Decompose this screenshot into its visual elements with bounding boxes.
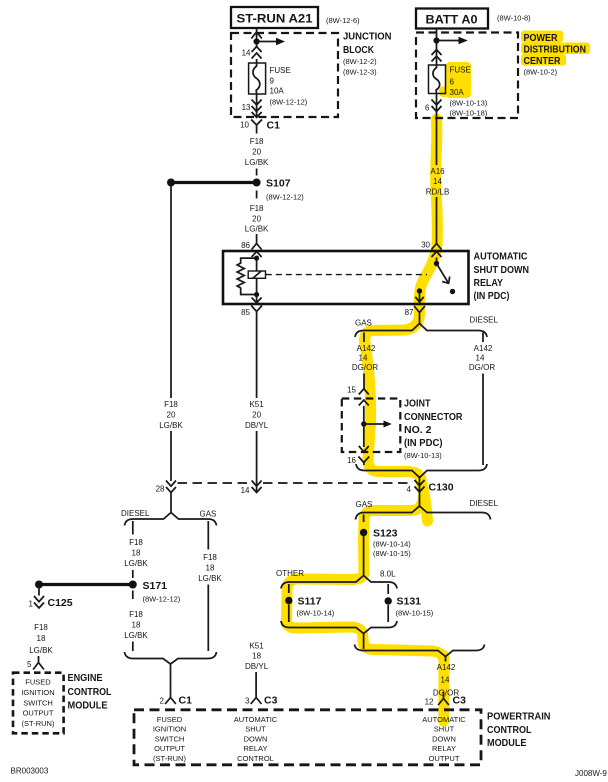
wire label K51 20 DB/YL bbox=[245, 400, 269, 430]
wire label F18 20 LG/BK (upper) bbox=[245, 137, 269, 167]
svg-text:SHUT DOWN: SHUT DOWN bbox=[474, 264, 530, 276]
splice S107 bbox=[167, 178, 304, 202]
highlight C130 overshoot tail bbox=[423, 488, 428, 521]
pin 16 connector Y bbox=[358, 457, 369, 466]
svg-text:J008W-9: J008W-9 bbox=[575, 769, 607, 778]
arrow from joint connector node bbox=[364, 421, 392, 428]
wire stub below S107 bbox=[256, 191, 258, 199]
wire from C125 splice down bbox=[38, 589, 40, 596]
wire stub below S171 bbox=[132, 591, 134, 600]
relay switch contact dot (n.o.) bbox=[450, 289, 455, 294]
OTHER branch stub bbox=[288, 584, 290, 593]
relay contact dot to pin 87 bbox=[417, 288, 422, 293]
svg-text:3: 3 bbox=[245, 697, 250, 706]
connector C125 chevrons bbox=[34, 596, 44, 608]
wire label F18 18 LG/BK (gas) bbox=[198, 553, 222, 583]
wire K51 from label to PCM pin 3 bbox=[255, 672, 257, 692]
svg-text:K51: K51 bbox=[249, 400, 264, 409]
highlight S123 to OTHER branch wire bbox=[287, 572, 365, 624]
junction block name label bbox=[343, 31, 392, 77]
highlight over POWER label bbox=[521, 31, 563, 43]
pin 2 connector into PCM bbox=[165, 692, 176, 704]
wire stub above S171 bbox=[132, 570, 134, 578]
chevron at junction block top edge bbox=[251, 32, 261, 39]
wire A16 to relay pin 30 bbox=[436, 197, 438, 244]
merge bracket below S117/S131 bbox=[281, 621, 397, 634]
wire label K51 18 DB/YL bbox=[245, 642, 269, 672]
svg-text:14: 14 bbox=[241, 486, 250, 495]
ECM terminal function label bbox=[21, 678, 55, 729]
svg-text:FUSE: FUSE bbox=[450, 66, 471, 75]
svg-text:LG/BK: LG/BK bbox=[29, 646, 53, 655]
power distribution center name label bbox=[524, 32, 587, 77]
svg-text:CONTROL: CONTROL bbox=[487, 724, 532, 736]
merge bracket above C130 bbox=[356, 464, 487, 478]
DIESEL branch A142 stub bbox=[482, 333, 484, 343]
wire from contact to pin 87 with arrowhead bbox=[415, 291, 423, 303]
svg-text:SHUT: SHUT bbox=[434, 725, 455, 734]
relay switch movable arm with arrowhead bbox=[437, 264, 450, 284]
wire from BATT A0 into PDC bbox=[436, 29, 438, 66]
pin 14 connector chevrons bbox=[252, 47, 262, 59]
svg-text:20: 20 bbox=[252, 215, 261, 224]
svg-text:(8W-10-13): (8W-10-13) bbox=[404, 451, 442, 460]
pin 5 connector into ECM bbox=[33, 656, 44, 670]
svg-text:85: 85 bbox=[241, 308, 250, 317]
GAS branch stub bbox=[363, 333, 365, 343]
wire stub above pin 15 bbox=[363, 374, 365, 390]
relay switch common dot pin 30 bbox=[434, 261, 439, 266]
wire to merge bracket (gas) bbox=[207, 585, 209, 652]
svg-text:(IN PDC): (IN PDC) bbox=[474, 290, 510, 302]
relay node dot lower bbox=[254, 292, 259, 297]
DIESEL F18 stub bbox=[132, 521, 134, 535]
DIESEL branch wire down to merge bracket bbox=[482, 374, 484, 466]
svg-text:8.0L: 8.0L bbox=[380, 570, 396, 579]
wire from label to junction 28 bbox=[170, 431, 172, 481]
engine control module name label bbox=[68, 672, 112, 712]
highlight through relay switch 30 to 87 bbox=[419, 248, 436, 315]
svg-text:(8W-10-2): (8W-10-2) bbox=[524, 68, 558, 77]
svg-text:CENTER: CENTER bbox=[524, 55, 561, 67]
svg-text:C130: C130 bbox=[429, 482, 454, 494]
svg-text:OUTPUT: OUTPUT bbox=[23, 709, 54, 718]
power distribution center dashed box bbox=[416, 33, 518, 119]
node dot in PDC bbox=[433, 37, 439, 43]
svg-text:2: 2 bbox=[160, 697, 165, 706]
svg-text:F18: F18 bbox=[203, 553, 217, 562]
joint connector node dot bbox=[361, 421, 366, 426]
svg-text:(IN PDC): (IN PDC) bbox=[404, 437, 443, 449]
svg-text:10: 10 bbox=[240, 121, 249, 130]
connector C125 feed line bbox=[35, 581, 133, 589]
chevron at joint connector bottom bbox=[359, 446, 369, 452]
wire label F18 18 LG/BK (diesel upper) bbox=[124, 538, 148, 568]
svg-text:CONTROL: CONTROL bbox=[237, 754, 274, 763]
wire merge to final bracket bbox=[363, 634, 365, 650]
relay name label bbox=[474, 251, 530, 303]
svg-text:14: 14 bbox=[476, 354, 485, 363]
svg-text:LG/BK: LG/BK bbox=[245, 158, 269, 167]
svg-text:S123: S123 bbox=[373, 528, 398, 540]
svg-text:87: 87 bbox=[405, 308, 414, 317]
svg-text:6: 6 bbox=[450, 78, 455, 87]
svg-text:14: 14 bbox=[359, 354, 368, 363]
svg-text:A16: A16 bbox=[430, 167, 445, 176]
highlight over CENTER label bbox=[521, 54, 566, 66]
svg-text:FUSED: FUSED bbox=[25, 678, 51, 687]
PCM terminal 2 function label bbox=[153, 715, 187, 763]
svg-text:DG/OR: DG/OR bbox=[469, 363, 495, 372]
svg-text:ST-RUN A21: ST-RUN A21 bbox=[237, 14, 314, 26]
svg-text:POWER: POWER bbox=[524, 32, 558, 44]
svg-text:C125: C125 bbox=[48, 597, 73, 609]
svg-text:LG/BK: LG/BK bbox=[124, 631, 148, 640]
wire label F18 20 LG/BK (left branch) bbox=[159, 400, 183, 430]
svg-text:BATT A0: BATT A0 bbox=[426, 15, 478, 27]
pin 30 connector chevrons bbox=[432, 244, 442, 258]
svg-text:DIESEL: DIESEL bbox=[470, 499, 499, 508]
C130 connector chevrons bbox=[415, 480, 425, 492]
svg-text:LG/BK: LG/BK bbox=[124, 559, 148, 568]
merged wire to PCM pin 2 bbox=[170, 664, 172, 692]
wire label A142 14 DG/OR (output) bbox=[433, 663, 459, 698]
svg-text:JUNCTION: JUNCTION bbox=[343, 31, 392, 43]
svg-text:AUTOMATIC: AUTOMATIC bbox=[234, 715, 278, 724]
svg-text:GAS: GAS bbox=[200, 510, 217, 519]
svg-text:RD/LB: RD/LB bbox=[426, 188, 450, 197]
PCM terminal 12 function label bbox=[422, 715, 466, 763]
PDC feed connector chevrons bbox=[432, 50, 442, 62]
svg-text:(8W-12-12): (8W-12-12) bbox=[143, 595, 181, 604]
HIGHLIGHT LAYER bbox=[287, 31, 591, 722]
svg-text:C3: C3 bbox=[264, 695, 278, 707]
svg-text:(8W-12-2): (8W-12-2) bbox=[343, 57, 377, 66]
svg-text:86: 86 bbox=[241, 241, 250, 250]
junction 14 connector chevrons bbox=[252, 481, 262, 493]
svg-text:LG/BK: LG/BK bbox=[198, 574, 222, 583]
pin 85 connector Y bbox=[251, 306, 262, 320]
connector line C130 dashes left bbox=[178, 482, 251, 484]
svg-text:RELAY: RELAY bbox=[243, 744, 267, 753]
svg-text:SWITCH: SWITCH bbox=[155, 735, 185, 744]
relay coil slash bbox=[253, 271, 261, 278]
split bracket below junction 28 bbox=[125, 513, 217, 526]
svg-text:BLOCK: BLOCK bbox=[343, 44, 374, 56]
svg-text:DB/YL: DB/YL bbox=[245, 662, 269, 671]
relay coil winding symbol bbox=[248, 271, 265, 278]
svg-text:(8W-10-13): (8W-10-13) bbox=[450, 99, 488, 108]
stem 28 to DIESEL/GAS split bbox=[170, 493, 172, 513]
svg-text:(8W-10-15): (8W-10-15) bbox=[396, 609, 434, 618]
svg-text:AUTOMATIC: AUTOMATIC bbox=[422, 715, 466, 724]
svg-text:18: 18 bbox=[132, 621, 141, 630]
svg-text:(8W-12-12): (8W-12-12) bbox=[270, 98, 308, 107]
wire K51 from label to junction 14 bbox=[256, 431, 258, 492]
svg-text:(8W-10-15): (8W-10-15) bbox=[373, 549, 411, 558]
wire K51 from pin 85 down to junction 14 bbox=[256, 319, 258, 398]
svg-text:AUTOMATIC: AUTOMATIC bbox=[474, 251, 528, 263]
PCM terminal 3 function label bbox=[234, 715, 278, 763]
svg-text:F18: F18 bbox=[34, 623, 48, 632]
svg-text:5: 5 bbox=[27, 660, 32, 669]
split bracket below C130 bbox=[356, 506, 491, 520]
wire from fuse 6 through PDC edge bbox=[436, 94, 438, 166]
svg-text:14: 14 bbox=[433, 177, 442, 186]
powertrain control module name label bbox=[487, 711, 551, 750]
svg-text:DIESEL: DIESEL bbox=[470, 316, 499, 325]
relay coil resistor bbox=[237, 258, 256, 294]
svg-text:20: 20 bbox=[167, 411, 176, 420]
wire from label to relay pin 86 bbox=[256, 234, 258, 244]
svg-text:OUTPUT: OUTPUT bbox=[429, 754, 460, 763]
highlight GAS A142 wire through joint connector no.2 bbox=[365, 340, 371, 461]
svg-text:BR003003: BR003003 bbox=[11, 767, 49, 776]
highlight over FUSE 6 30A label bbox=[446, 62, 471, 98]
svg-text:C1: C1 bbox=[179, 695, 193, 707]
highlight OTHER S117 to merge bracket bbox=[287, 621, 364, 644]
junction 28 connector chevrons bbox=[166, 481, 176, 493]
pin 87 connector Y bbox=[414, 306, 425, 324]
junction block dashed box bbox=[231, 33, 338, 117]
GAS branch stub to S123 bbox=[363, 515, 365, 523]
svg-text:SWITCH: SWITCH bbox=[23, 698, 53, 707]
splice S171 bbox=[129, 580, 181, 604]
split bracket below pin 87 bbox=[355, 324, 487, 338]
power feed box ST-RUN A21 bbox=[231, 7, 318, 28]
svg-text:CONTROL: CONTROL bbox=[68, 686, 112, 698]
svg-text:(8W-10-14): (8W-10-14) bbox=[373, 540, 411, 549]
pin 86 connector chevrons bbox=[252, 244, 262, 258]
svg-text:LG/BK: LG/BK bbox=[159, 421, 183, 430]
svg-text:GAS: GAS bbox=[356, 500, 373, 509]
highlight over DISTRIBUTION label bbox=[521, 43, 590, 55]
relay K1 automatic shut down relay box bbox=[223, 251, 469, 304]
svg-text:(ST-RUN): (ST-RUN) bbox=[22, 719, 55, 728]
svg-text:A142: A142 bbox=[437, 663, 456, 672]
engine control module dashed box bbox=[13, 673, 64, 734]
svg-text:K51: K51 bbox=[249, 642, 264, 651]
svg-text:CONNECTOR: CONNECTOR bbox=[404, 411, 463, 423]
powertrain control module dashed box bbox=[134, 710, 481, 765]
wire stub above S107 bbox=[256, 169, 258, 176]
svg-text:RELAY: RELAY bbox=[432, 744, 456, 753]
wire label A142 14 DG/OR (GAS) bbox=[352, 344, 378, 372]
chevron at junction block bottom edge bbox=[252, 112, 262, 117]
svg-text:14: 14 bbox=[242, 49, 251, 58]
svg-text:18: 18 bbox=[252, 652, 261, 661]
svg-text:S131: S131 bbox=[397, 596, 422, 608]
connector C1 pin 10 bbox=[240, 120, 280, 134]
highlight wire A16 from PDC to relay pin 30 bbox=[436, 119, 438, 250]
wire S117 to merge bracket bbox=[288, 605, 290, 623]
wire S123 down to OTHER/8.0L split bbox=[363, 536, 365, 576]
wire label A16 14 RD/LB bbox=[426, 167, 450, 197]
svg-text:NO. 2: NO. 2 bbox=[404, 424, 432, 436]
wire to merge bracket (diesel) bbox=[132, 642, 134, 652]
svg-text:(8W-10-14): (8W-10-14) bbox=[297, 609, 335, 618]
svg-text:F18: F18 bbox=[129, 610, 143, 619]
svg-text:FUSED: FUSED bbox=[157, 715, 183, 724]
arrow to other circuits from junction block node bbox=[257, 38, 285, 45]
wire from fuse 9 to pin 13 bbox=[256, 94, 258, 117]
splice S131 bbox=[385, 596, 434, 618]
svg-text:MODULE: MODULE bbox=[487, 737, 527, 749]
highlight C130 to S123 branch bbox=[364, 496, 424, 574]
pin 3 connector into PCM bbox=[251, 692, 262, 704]
chevron above bottom edge at 85 bbox=[252, 298, 262, 303]
wire S131 to merge bracket bbox=[387, 605, 389, 622]
svg-text:(ST-RUN): (ST-RUN) bbox=[153, 754, 186, 763]
pin 6 connector chevrons bbox=[432, 100, 442, 112]
svg-text:S107: S107 bbox=[266, 178, 291, 190]
svg-text:15: 15 bbox=[347, 386, 356, 395]
power feed box BATT A0 bbox=[416, 9, 488, 29]
svg-text:DOWN: DOWN bbox=[244, 735, 268, 744]
svg-text:10A: 10A bbox=[270, 87, 285, 96]
svg-text:F18: F18 bbox=[129, 538, 143, 547]
highlight 16 to C130 bbox=[368, 459, 423, 490]
wire through bottom edge at 85 bbox=[256, 295, 258, 304]
svg-text:1: 1 bbox=[29, 600, 34, 609]
svg-text:LG/BK: LG/BK bbox=[245, 225, 269, 234]
svg-text:F18: F18 bbox=[250, 137, 264, 146]
svg-text:(8W-10-8): (8W-10-8) bbox=[497, 14, 531, 23]
joint connector name label bbox=[404, 398, 463, 461]
svg-text:ENGINE: ENGINE bbox=[68, 672, 103, 684]
relay coil branch wire 86 to 85 bbox=[256, 258, 258, 296]
svg-text:9: 9 bbox=[270, 77, 275, 86]
fuse 6 element bbox=[429, 65, 446, 94]
fuse 9 value label bbox=[270, 66, 308, 107]
svg-text:SHUT: SHUT bbox=[245, 725, 266, 734]
svg-text:20: 20 bbox=[252, 411, 261, 420]
svg-text:F18: F18 bbox=[250, 204, 264, 213]
svg-text:A142: A142 bbox=[474, 344, 493, 353]
highlight 87 to GAS branch wire bbox=[365, 313, 420, 342]
svg-text:28: 28 bbox=[156, 485, 165, 494]
svg-text:C1: C1 bbox=[267, 120, 281, 132]
svg-text:18: 18 bbox=[132, 549, 141, 558]
svg-text:POWERTRAIN: POWERTRAIN bbox=[487, 711, 551, 723]
fuse 6 value label bbox=[450, 66, 488, 118]
GAS F18 stub bbox=[207, 521, 209, 550]
svg-text:(8W-10-18): (8W-10-18) bbox=[450, 109, 488, 118]
svg-text:(8W-12-6): (8W-12-6) bbox=[326, 16, 360, 25]
split bracket below S123 bbox=[281, 576, 397, 589]
node dot in junction block bbox=[254, 38, 260, 44]
connector line C130 dashes right bbox=[263, 482, 413, 484]
pin 13 connector chevrons bbox=[252, 100, 262, 112]
highlight merge bracket to A142 output bbox=[363, 641, 444, 661]
svg-text:JOINT: JOINT bbox=[404, 398, 431, 410]
svg-text:IGNITION: IGNITION bbox=[153, 725, 186, 734]
wire label F18 18 LG/BK (diesel lower) bbox=[124, 610, 148, 640]
splice S117 bbox=[285, 596, 335, 618]
svg-text:C3: C3 bbox=[453, 695, 467, 707]
svg-text:A142: A142 bbox=[357, 344, 376, 353]
svg-text:DB/YL: DB/YL bbox=[245, 421, 269, 430]
svg-text:30: 30 bbox=[421, 241, 430, 250]
svg-text:18: 18 bbox=[206, 564, 215, 573]
svg-text:IGNITION: IGNITION bbox=[21, 688, 54, 697]
svg-text:OUTPUT: OUTPUT bbox=[154, 744, 185, 753]
svg-text:DG/OR: DG/OR bbox=[352, 363, 378, 372]
svg-text:RELAY: RELAY bbox=[474, 277, 504, 289]
svg-text:DOWN: DOWN bbox=[432, 735, 456, 744]
svg-text:30A: 30A bbox=[450, 88, 465, 97]
svg-text:DISTRIBUTION: DISTRIBUTION bbox=[524, 44, 587, 56]
pin 15 connector chevrons bbox=[359, 389, 369, 406]
wire F18 from S107 branch down to junction 28 bbox=[170, 187, 172, 399]
svg-text:(8W-12-12): (8W-12-12) bbox=[266, 193, 304, 202]
merge bracket above C1 pin 2 bbox=[125, 652, 217, 664]
svg-text:S117: S117 bbox=[298, 596, 322, 608]
stem merge bracket to C130 bbox=[419, 478, 421, 507]
svg-text:4: 4 bbox=[407, 485, 412, 494]
wire label F18 18 LG/BK (to ECM) bbox=[29, 623, 53, 655]
pin 12 connector into PCM bbox=[438, 692, 449, 706]
svg-text:DIESEL: DIESEL bbox=[121, 509, 150, 518]
svg-text:(8W-12-3): (8W-12-3) bbox=[343, 68, 377, 77]
wire label F18 20 LG/BK (lower) bbox=[245, 204, 269, 234]
final merge bracket to A142 output bbox=[355, 645, 485, 657]
svg-text:S171: S171 bbox=[143, 580, 168, 592]
wire stub from final bracket bbox=[445, 657, 447, 662]
svg-text:16: 16 bbox=[347, 456, 356, 465]
highlight A142 wire into PCM pin 12 bbox=[438, 656, 449, 721]
svg-text:20: 20 bbox=[252, 148, 261, 157]
svg-text:18: 18 bbox=[37, 634, 46, 643]
svg-text:FUSE: FUSE bbox=[270, 66, 291, 75]
wire through joint connector to pin 16 bbox=[363, 406, 365, 447]
svg-text:14: 14 bbox=[441, 676, 450, 685]
wire from ST-RUN A21 into junction block bbox=[256, 28, 258, 47]
splice S123 bbox=[360, 528, 411, 559]
svg-text:13: 13 bbox=[242, 103, 251, 112]
svg-text:12: 12 bbox=[425, 698, 434, 707]
svg-text:MODULE: MODULE bbox=[68, 700, 108, 712]
joint connector no.2 dashed box bbox=[342, 399, 401, 453]
fuse 9 element bbox=[249, 63, 266, 94]
wire label A142 14 DG/OR (DIESEL upper) bbox=[469, 344, 495, 372]
relay armature linkage dashed line bbox=[266, 274, 427, 276]
arrow to other circuits from PDC node bbox=[437, 37, 468, 44]
relay node dot upper bbox=[254, 256, 259, 261]
svg-text:OTHER: OTHER bbox=[276, 569, 304, 578]
svg-text:F18: F18 bbox=[164, 400, 178, 409]
8.0L branch stub bbox=[387, 584, 389, 594]
svg-text:GAS: GAS bbox=[355, 319, 372, 328]
svg-text:6: 6 bbox=[425, 104, 430, 113]
